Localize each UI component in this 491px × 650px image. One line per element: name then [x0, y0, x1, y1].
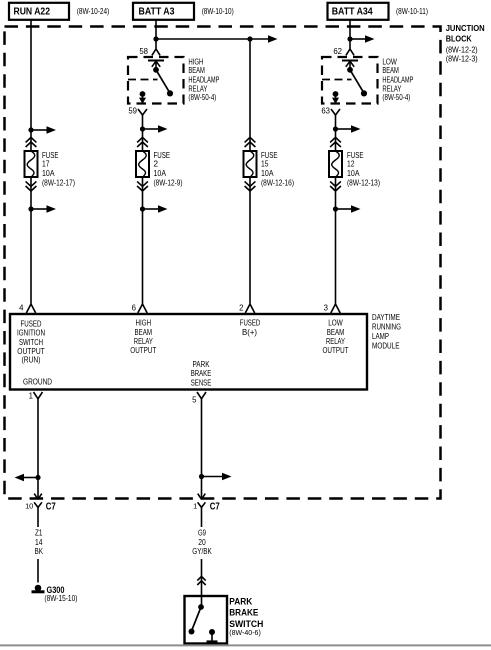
- label HIGH BEAM HEADLAMP RELAY (8W-50-4): [188, 57, 219, 102]
- label Z1 14 BK: [35, 528, 44, 557]
- label FUSE 2 10A (8W-12-9): [154, 151, 183, 187]
- svg-text:12: 12: [347, 160, 355, 169]
- label FUSED IGNITION SWITCH OUTPUT (RUN): [17, 319, 45, 365]
- wire RUN A22 down to fuse 17: [30, 20, 32, 151]
- svg-text:BATT A34: BATT A34: [332, 7, 373, 18]
- svg-text:(8W-12-9): (8W-12-9): [154, 178, 183, 187]
- switch S1 park brake switch: [185, 596, 228, 644]
- svg-text:(8W-12-17): (8W-12-17): [42, 178, 75, 187]
- bottom rule: [0, 644, 491, 646]
- connector RUN A22: [9, 3, 69, 20]
- junction dot col4 lower: [333, 206, 338, 211]
- svg-text:GY/BK: GY/BK: [192, 546, 212, 556]
- svg-text:15: 15: [261, 160, 269, 169]
- svg-text:RELAY: RELAY: [188, 84, 208, 93]
- svg-text:C7: C7: [210, 501, 220, 512]
- pin 5: [192, 392, 206, 405]
- svg-text:10: 10: [25, 501, 33, 510]
- wire G9 to park brake switch: [201, 559, 203, 607]
- wire BATT A3 down to relay pin 58: [155, 20, 157, 49]
- fuse F17: [25, 151, 38, 177]
- svg-text:RELAY: RELAY: [382, 84, 402, 93]
- connector BATT A3: [133, 3, 194, 20]
- wire branch arrow left (points left): [15, 474, 39, 482]
- in-line connector below fuse 17: [26, 181, 37, 191]
- svg-text:3: 3: [324, 304, 328, 313]
- junction dot col2 upper: [140, 126, 145, 131]
- svg-text:BEAM: BEAM: [382, 66, 399, 75]
- svg-text:SENSE: SENSE: [191, 378, 212, 388]
- wire C7 to G9 label: [201, 515, 203, 528]
- connector C7 pin 10: [25, 494, 56, 515]
- svg-text:HEADLAMP: HEADLAMP: [188, 75, 219, 84]
- svg-text:BRAKE: BRAKE: [229, 607, 258, 618]
- wire fuse 15 column: [249, 39, 251, 151]
- connector C7 pin 1: [193, 494, 220, 515]
- in-line connector below fuse 2: [137, 181, 148, 191]
- label PARK BRAKE SWITCH (8W-40-6): [229, 597, 263, 637]
- fuse F2: [136, 151, 149, 177]
- svg-text:10A: 10A: [42, 169, 55, 178]
- pin 1: [29, 392, 43, 404]
- relay K1 high beam headlamp relay: [128, 57, 184, 104]
- wire branch arrow col4 upper: [336, 125, 361, 133]
- svg-text:(8W-15-10): (8W-15-10): [44, 594, 77, 603]
- wire branch arrow col2 upper: [143, 125, 168, 133]
- svg-text:62: 62: [333, 47, 342, 56]
- svg-text:2: 2: [239, 304, 243, 313]
- label JUNCTION BLOCK: [446, 23, 485, 64]
- wire Z1 to G300: [37, 559, 39, 583]
- wire branch arrow col1 lower: [31, 205, 56, 213]
- svg-text:(8W-10-11): (8W-10-11): [396, 7, 428, 16]
- wire relay pin 59 to fuse 2: [142, 120, 144, 152]
- svg-text:10A: 10A: [261, 169, 274, 178]
- junction dot BATT A3: [153, 36, 158, 41]
- junction dot col1 lower: [28, 206, 33, 211]
- svg-text:B(+): B(+): [242, 327, 257, 337]
- connector BATT A34: [328, 3, 389, 20]
- label FUSE 12 10A (8W-12-13): [347, 151, 380, 187]
- svg-text:(8W-50-4): (8W-50-4): [188, 93, 216, 102]
- label G9 20 GY/BK: [192, 528, 212, 557]
- svg-text:C7: C7: [46, 501, 56, 512]
- pin 3: [324, 304, 341, 314]
- junction dot right lower: [199, 474, 204, 479]
- svg-text:HEADLAMP: HEADLAMP: [382, 75, 413, 84]
- wire branch arrow col2 lower: [143, 205, 168, 213]
- svg-text:(RUN): (RUN): [22, 355, 41, 365]
- relay K2 low beam headlamp relay: [322, 57, 378, 104]
- svg-text:10A: 10A: [154, 169, 167, 178]
- svg-text:10A: 10A: [347, 169, 360, 178]
- svg-text:58: 58: [139, 47, 148, 56]
- svg-text:1: 1: [29, 392, 33, 401]
- in-line connector above park brake switch: [197, 576, 205, 585]
- svg-text:OUTPUT: OUTPUT: [130, 345, 156, 355]
- svg-text:1: 1: [193, 501, 197, 510]
- fuse F12: [329, 151, 342, 177]
- svg-text:RUN A22: RUN A22: [14, 7, 51, 18]
- wire fuse 12 to module pin 3: [335, 177, 337, 304]
- in-line connector below fuse 15: [245, 181, 256, 191]
- junction dot left lower: [35, 475, 40, 480]
- svg-text:4: 4: [19, 304, 24, 313]
- svg-text:5: 5: [192, 396, 197, 405]
- svg-text:(8W-12-16): (8W-12-16): [261, 178, 294, 187]
- pin 2: [239, 304, 255, 314]
- label HIGH BEAM RELAY OUTPUT: [130, 318, 156, 356]
- label LOW BEAM HEADLAMP RELAY (8W-50-4): [382, 57, 413, 102]
- svg-text:BLOCK: BLOCK: [446, 34, 472, 44]
- junction dot BATT A34: [347, 36, 352, 41]
- junction block border: [5, 27, 441, 499]
- junction dot above fuse 15: [247, 36, 252, 41]
- wire fuse 15 to module pin 2: [249, 177, 251, 304]
- pin 4: [19, 304, 36, 314]
- wire relay pin 63 to fuse 12: [335, 120, 337, 152]
- wire branch arrow col1 upper: [31, 126, 56, 134]
- pin 62: [333, 47, 354, 56]
- wire branch arrow col4 lower: [336, 205, 361, 213]
- pin 6: [132, 304, 148, 314]
- in-line connector above fuse 12: [330, 137, 341, 147]
- svg-text:BK: BK: [35, 546, 44, 556]
- svg-text:BEAM: BEAM: [188, 66, 205, 75]
- svg-text:2: 2: [154, 160, 159, 169]
- wire fuse 17 to module pin 4: [30, 177, 32, 304]
- svg-text:17: 17: [42, 160, 50, 169]
- svg-text:(8W-12-3): (8W-12-3): [446, 55, 478, 64]
- label FUSED B(+): [240, 318, 261, 337]
- wire branch arrow top center: [268, 35, 278, 43]
- svg-text:(8W-12-2): (8W-12-2): [446, 46, 478, 55]
- svg-text:LOW: LOW: [382, 57, 397, 66]
- svg-text:6: 6: [132, 304, 136, 313]
- wire module pin 1 to C7: [37, 404, 39, 500]
- junction dot col1 upper: [28, 127, 33, 132]
- svg-text:63: 63: [321, 106, 330, 115]
- svg-text:59: 59: [128, 106, 137, 115]
- wire C7 to Z1 label: [37, 515, 39, 528]
- svg-text:PARK: PARK: [229, 597, 252, 608]
- label LOW BEAM RELAY OUTPUT: [323, 318, 349, 356]
- junction dot col2 lower: [140, 206, 145, 211]
- pin 63: [321, 106, 340, 119]
- label FUSE 15 10A (8W-12-16): [261, 151, 294, 187]
- wire BATT A3 feed to fuse 15: [156, 38, 268, 40]
- junction dot col4 upper: [333, 126, 338, 131]
- pin 58: [139, 47, 160, 56]
- svg-text:OUTPUT: OUTPUT: [323, 345, 349, 355]
- wire BATT A34 down to relay pin 62: [349, 20, 351, 49]
- wire fuse 2 to module pin 6: [142, 177, 144, 304]
- svg-text:BATT A3: BATT A3: [139, 7, 175, 18]
- label FUSE 17 10A (8W-12-17): [42, 151, 75, 187]
- svg-text:JUNCTION: JUNCTION: [446, 23, 485, 33]
- in-line connector below fuse 12: [330, 181, 341, 191]
- svg-text:MODULE: MODULE: [372, 340, 400, 350]
- label DAYTIME RUNNING LAMP MODULE: [372, 312, 401, 350]
- wire module pin 5 to C7: [201, 404, 203, 500]
- in-line connector above fuse 2: [137, 137, 148, 147]
- svg-text:GROUND: GROUND: [23, 376, 52, 386]
- module U1 daytime running lamp module: [10, 314, 367, 390]
- svg-text:(8W-50-4): (8W-50-4): [382, 93, 410, 102]
- svg-text:(8W-10-10): (8W-10-10): [202, 7, 234, 16]
- wire branch arrow right lower: [202, 473, 232, 481]
- svg-text:(8W-40-6): (8W-40-6): [229, 628, 261, 637]
- wire branch arrow BATT A34: [350, 35, 375, 43]
- svg-text:(8W-10-24): (8W-10-24): [77, 7, 110, 16]
- pin 59: [128, 106, 147, 119]
- svg-text:HIGH: HIGH: [188, 57, 203, 66]
- label PARK BRAKE SENSE: [191, 359, 212, 388]
- in-line connector above fuse 15: [245, 137, 256, 147]
- fuse F15: [244, 151, 257, 177]
- ground G300: [32, 585, 78, 603]
- in-line connector above fuse 17: [26, 137, 37, 147]
- svg-text:(8W-12-13): (8W-12-13): [347, 178, 380, 187]
